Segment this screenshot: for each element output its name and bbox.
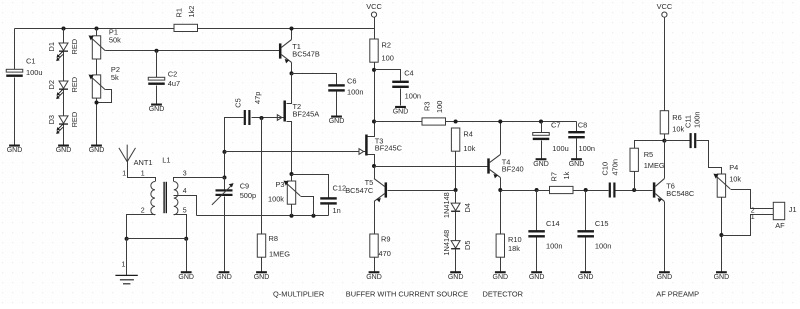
- svg-text:GND: GND: [657, 274, 673, 281]
- svg-text:1: 1: [141, 171, 145, 178]
- wire P3 wiper: [301, 197, 314, 216]
- junction C14 top: [535, 188, 539, 192]
- wire L1 pin3 to tank: [174, 178, 225, 182]
- wire VCC to R6: [664, 18, 666, 111]
- junction D1 chain top: [62, 27, 66, 31]
- svg-text:GND: GND: [448, 274, 464, 281]
- wire AVC bus: [197, 215, 329, 217]
- svg-text:R2: R2: [382, 41, 391, 50]
- svg-text:470: 470: [379, 249, 391, 258]
- svg-text:100u: 100u: [552, 144, 568, 153]
- svg-text:GND: GND: [529, 274, 545, 281]
- wire T6 collector: [664, 141, 666, 179]
- wire L1 pin2: [127, 215, 156, 239]
- wire C5 left to tank node: [225, 118, 244, 153]
- wire D3 to GND: [63, 125, 65, 145]
- ground below L1 pin5: [178, 271, 194, 281]
- resistor R10: [496, 234, 504, 257]
- svg-text:1MEG: 1MEG: [644, 161, 665, 170]
- ground below C9: [216, 271, 232, 281]
- wire R4 bottom: [455, 152, 457, 191]
- svg-text:GND: GND: [7, 147, 23, 154]
- capacitor C14: [528, 230, 545, 237]
- junction C15 top: [584, 188, 588, 192]
- ground below R9: [366, 271, 382, 281]
- wire D1 to D2: [63, 52, 65, 82]
- svg-text:3: 3: [183, 171, 187, 178]
- LED D1: [56, 43, 68, 61]
- svg-text:C5: C5: [233, 98, 242, 107]
- wire C15 down: [585, 191, 587, 231]
- resistor R3: [422, 118, 446, 125]
- wire C7 top: [541, 122, 543, 133]
- junction T1 emitter / C6: [290, 71, 294, 75]
- wire P1 to P2: [96, 60, 98, 75]
- svg-text:BUFFER WITH CURRENT SOURCE: BUFFER WITH CURRENT SOURCE: [346, 289, 468, 298]
- capacitor C10: [609, 183, 616, 198]
- svg-text:1: 1: [751, 214, 755, 221]
- wire D2 to D3: [63, 90, 65, 116]
- transistor T1: [279, 40, 292, 64]
- wire P2 bottom: [96, 99, 98, 145]
- wire bus to P1: [96, 29, 98, 36]
- svg-text:GND: GND: [254, 274, 270, 281]
- wire T2 source to P3: [291, 175, 293, 182]
- junction R2 bottom / C4: [372, 68, 376, 72]
- junction P4 bottom / J1 pin1: [719, 233, 723, 237]
- wire C11 to P4 top: [697, 141, 722, 175]
- wire T3 drain: [368, 122, 375, 137]
- wire T1 collector to bus: [291, 29, 293, 40]
- junction T4 emitter / R10 / det line: [498, 188, 502, 192]
- junction P1 chain top: [95, 27, 99, 31]
- wire R5 bottom: [634, 172, 636, 191]
- wire T5 base: [388, 190, 456, 192]
- svg-text:C11: C11: [683, 115, 692, 128]
- capacitor C4: [392, 81, 409, 88]
- svg-text:100n: 100n: [347, 87, 363, 96]
- wire top supply bus left: [15, 28, 175, 30]
- svg-text:BC547C: BC547C: [345, 186, 374, 195]
- svg-text:RED: RED: [70, 112, 79, 128]
- svg-text:1: 1: [122, 171, 126, 178]
- resistor R4: [451, 128, 459, 151]
- wire C14 to R7: [537, 190, 550, 192]
- wire C1 to GND: [14, 78, 16, 145]
- wire C6 branch: [292, 74, 337, 85]
- svg-text:GND: GND: [493, 274, 509, 281]
- wire C8 to GND: [576, 139, 578, 159]
- supply symbol VCC left: [371, 12, 376, 17]
- svg-text:C10: C10: [601, 162, 610, 176]
- svg-text:R4: R4: [463, 130, 472, 139]
- svg-text:10k: 10k: [463, 144, 475, 153]
- svg-text:10k: 10k: [729, 175, 741, 184]
- wire C9 to GND: [224, 197, 226, 272]
- wire T2 source: [287, 122, 292, 175]
- wire to earth ground: [126, 239, 128, 276]
- svg-text:C1: C1: [26, 57, 35, 66]
- svg-text:R7: R7: [550, 172, 559, 181]
- junction T2 source / P3 / C12: [290, 172, 294, 176]
- LED D3: [56, 116, 68, 134]
- wire C14 to GND: [536, 238, 538, 272]
- wire top supply bus right (R1 to VCC): [198, 28, 375, 30]
- svg-text:C8: C8: [578, 120, 587, 129]
- earth ground symbol: [115, 275, 137, 283]
- wire C4 branch: [375, 70, 401, 81]
- svg-text:1k2: 1k2: [187, 6, 196, 18]
- svg-text:C12: C12: [333, 184, 347, 193]
- svg-text:1N4148: 1N4148: [442, 192, 451, 218]
- ground below C8: [569, 158, 585, 168]
- wire VCC to bus corner: [374, 18, 376, 40]
- wire bus to D1: [63, 29, 65, 44]
- resistor R9: [370, 234, 378, 257]
- junction T4 collector: [498, 120, 502, 124]
- capacitor C1: [6, 69, 23, 77]
- wire C9 top: [224, 178, 226, 190]
- junction C9 top / L1 pin3: [223, 176, 227, 180]
- wire C2 to GND: [156, 86, 158, 104]
- svg-text:D3: D3: [47, 115, 56, 124]
- wire T2 gate to C5: [252, 117, 284, 119]
- wire R7 to C15: [574, 190, 609, 192]
- svg-text:100n: 100n: [692, 112, 701, 128]
- wire C8 top: [576, 122, 578, 132]
- svg-text:C2: C2: [168, 69, 177, 78]
- potentiometer P2: [89, 75, 106, 99]
- wire C1 top: [14, 29, 16, 70]
- svg-text:AF PREAMP: AF PREAMP: [656, 289, 699, 298]
- resistor R5: [630, 148, 638, 171]
- svg-text:R9: R9: [381, 234, 390, 243]
- ground below C4: [393, 106, 409, 116]
- diode D4: [451, 203, 460, 212]
- diode D5: [451, 241, 460, 250]
- svg-text:D5: D5: [463, 241, 472, 250]
- ground below C7: [533, 158, 549, 168]
- junction C7 top: [539, 120, 543, 124]
- wire pin2-pin5 link: [127, 238, 187, 240]
- wire T4 emitter: [500, 178, 502, 235]
- wire P4 wiper to J1 pin2: [731, 190, 774, 209]
- ground below C15: [578, 271, 594, 281]
- wire T4 collector: [500, 122, 502, 155]
- junction L1 pin5 / ground: [184, 237, 188, 241]
- junction R5 bottom / T6 base: [632, 188, 636, 192]
- svg-text:L1: L1: [162, 155, 170, 164]
- svg-text:100n: 100n: [405, 92, 421, 101]
- transistor T2: [277, 101, 286, 122]
- transistor T4: [487, 155, 500, 179]
- capacitor C2: [148, 77, 165, 85]
- wire C4 to GND: [400, 89, 402, 106]
- ground below R8: [254, 271, 270, 281]
- connector J1: [773, 202, 784, 219]
- wire tank node down to C9: [224, 153, 226, 178]
- wire antenna to L1 pin1: [128, 162, 156, 182]
- capacitor C6: [328, 84, 345, 91]
- svg-text:ANT1: ANT1: [134, 158, 153, 167]
- svg-text:1MEG: 1MEG: [269, 249, 290, 258]
- ground below C14: [529, 271, 545, 281]
- svg-text:100n: 100n: [579, 144, 595, 153]
- svg-text:100n: 100n: [546, 242, 562, 251]
- svg-text:100: 100: [435, 101, 444, 113]
- svg-text:100: 100: [382, 54, 394, 63]
- wire node to C11: [665, 140, 690, 142]
- svg-text:1: 1: [121, 262, 125, 269]
- wire C12 bottom: [328, 205, 330, 216]
- svg-text:GND: GND: [366, 274, 382, 281]
- junction R3 / R4: [454, 120, 458, 124]
- wire P1 wiper to T1 base: [106, 50, 280, 52]
- ground below P2: [89, 145, 105, 155]
- svg-text:C14: C14: [546, 219, 560, 228]
- svg-text:100n: 100n: [595, 242, 611, 251]
- wire D4 to D5: [455, 212, 457, 241]
- svg-text:VCC: VCC: [657, 2, 673, 11]
- transistor T3: [359, 135, 368, 156]
- ground below C1: [7, 145, 23, 155]
- junction T1 collector on bus: [290, 27, 294, 31]
- resistor R1: [174, 24, 198, 31]
- svg-text:R8: R8: [269, 234, 278, 243]
- junction P3 bottom on bus: [290, 214, 294, 218]
- potentiometer P3: [284, 181, 301, 205]
- svg-text:18k: 18k: [508, 244, 520, 253]
- svg-text:C15: C15: [595, 219, 609, 228]
- svg-text:GND: GND: [569, 161, 585, 168]
- svg-text:1n: 1n: [333, 206, 341, 215]
- junction R6 / R5 / C11 / T6 collector: [662, 139, 666, 143]
- svg-text:Q-MULTIPLIER: Q-MULTIPLIER: [273, 289, 324, 298]
- junction R8 on gate wire: [260, 116, 264, 120]
- wire T6 emitter to GND: [664, 202, 666, 272]
- svg-text:AF: AF: [775, 221, 785, 230]
- svg-text:GND: GND: [329, 118, 345, 125]
- svg-text:47p: 47p: [253, 92, 262, 104]
- svg-text:R5: R5: [644, 150, 653, 159]
- svg-text:GND: GND: [216, 274, 232, 281]
- wire P3 bottom: [291, 205, 293, 216]
- svg-text:5k: 5k: [111, 73, 119, 82]
- capacitor C9 (variable): [212, 183, 234, 205]
- junction L1 pin2 / earth: [125, 237, 129, 241]
- svg-text:D4: D4: [463, 203, 472, 212]
- svg-text:RED: RED: [70, 39, 79, 55]
- wire T3 gate arrowstub: [363, 151, 366, 153]
- transistor T5: [374, 179, 387, 203]
- svg-text:C7: C7: [551, 120, 560, 129]
- wire pin5 gnd: [186, 239, 188, 272]
- wire C6 to GND: [336, 92, 338, 116]
- resistor R8: [257, 234, 265, 257]
- wire R6 bottom: [664, 134, 666, 141]
- svg-text:RED: RED: [70, 77, 79, 93]
- svg-text:C6: C6: [347, 77, 356, 86]
- wire R9 to GND: [374, 258, 376, 272]
- ground below P4: [714, 271, 730, 281]
- wire T5 emitter to R9: [374, 202, 376, 235]
- svg-text:C4: C4: [404, 69, 413, 78]
- junction tank node C5/C9/T3 gate: [223, 150, 227, 154]
- svg-text:C9: C9: [240, 182, 249, 191]
- resistor R2: [370, 39, 378, 62]
- svg-text:GND: GND: [533, 161, 549, 168]
- antenna ANT1: [119, 145, 136, 162]
- capacitor C5: [244, 110, 251, 125]
- svg-text:BF245A: BF245A: [293, 109, 320, 118]
- ground below D3: [56, 145, 72, 155]
- svg-text:GND: GND: [714, 274, 730, 281]
- wire T3 source: [368, 155, 375, 167]
- wire tank node to T3 gate: [225, 151, 366, 153]
- svg-text:BC547B: BC547B: [292, 50, 320, 59]
- svg-text:BF240: BF240: [502, 165, 524, 174]
- svg-text:R1: R1: [174, 8, 183, 17]
- svg-text:5: 5: [183, 208, 187, 215]
- wire R5 top to collector node: [635, 141, 665, 149]
- junction T3 source / T4 base / T5 collector: [372, 164, 376, 168]
- ground below R10: [493, 271, 509, 281]
- svg-text:50k: 50k: [109, 35, 121, 44]
- wire D5 to GND: [455, 250, 457, 272]
- svg-text:GND: GND: [89, 147, 105, 154]
- capacitor C11: [690, 133, 697, 148]
- svg-text:GND: GND: [178, 274, 194, 281]
- wire P2 wiper return: [97, 90, 112, 103]
- wire T2 drain: [287, 74, 292, 104]
- junction R4 / D4 / detector line: [454, 188, 458, 192]
- wire T1 emitter down: [291, 63, 293, 104]
- svg-text:D1: D1: [47, 42, 56, 51]
- LED D2: [56, 81, 68, 99]
- wire L1 pin5: [174, 215, 187, 239]
- wire T3 drain to R3: [375, 121, 423, 123]
- capacitor C15: [577, 230, 594, 237]
- wire D4 top: [455, 191, 457, 204]
- inductor L1 transformer: [151, 182, 178, 215]
- wire R8 to GND: [261, 258, 263, 272]
- svg-text:100k: 100k: [268, 195, 284, 204]
- svg-text:GND: GND: [393, 109, 409, 116]
- svg-text:470n: 470n: [611, 159, 620, 175]
- svg-text:P3: P3: [275, 180, 284, 189]
- junction P2 bottom: [95, 101, 99, 105]
- junction C2 top: [155, 49, 159, 53]
- svg-text:4: 4: [183, 188, 187, 195]
- junction T3 drain / R3: [372, 120, 376, 124]
- svg-text:2: 2: [141, 208, 145, 215]
- svg-text:500p: 500p: [240, 191, 256, 200]
- ground below D5: [448, 271, 464, 281]
- svg-text:GND: GND: [149, 106, 165, 113]
- potentiometer P1: [89, 35, 106, 59]
- ground below T6: [657, 271, 673, 281]
- resistor R6: [660, 111, 668, 134]
- svg-text:100u: 100u: [26, 68, 42, 77]
- wire C12 branch: [292, 175, 329, 198]
- svg-text:4u7: 4u7: [168, 79, 180, 88]
- svg-text:BF245C: BF245C: [375, 144, 403, 153]
- wire C10 to T6 base: [616, 190, 653, 192]
- wire R2 bottom to T3 drain: [374, 63, 376, 122]
- svg-text:VCC: VCC: [366, 2, 382, 11]
- svg-text:GND: GND: [578, 274, 594, 281]
- wire T5 collector: [374, 167, 376, 179]
- transistor T6: [653, 179, 665, 203]
- wire P4 bottom to GND: [721, 198, 723, 272]
- wire C14 down: [536, 191, 538, 231]
- svg-text:1k: 1k: [562, 171, 571, 179]
- wire C2 top: [156, 51, 158, 78]
- capacitor C7: [533, 133, 550, 141]
- resistor R7: [550, 186, 574, 193]
- capacitor C8: [568, 131, 585, 138]
- potentiometer P4: [713, 174, 730, 198]
- ground below C2: [149, 104, 165, 114]
- svg-text:GND: GND: [56, 147, 72, 154]
- svg-text:R10: R10: [508, 235, 522, 244]
- wire C7 to GND: [541, 141, 543, 159]
- svg-text:R3: R3: [423, 102, 432, 111]
- wire R10 to GND: [500, 258, 502, 272]
- svg-text:D2: D2: [47, 80, 56, 89]
- junction P3 wiper on bus: [312, 214, 316, 218]
- svg-text:J1: J1: [789, 205, 797, 214]
- wire T3 source to T4 base: [375, 166, 488, 168]
- svg-text:BC548C: BC548C: [666, 189, 695, 198]
- ground below C6: [329, 116, 345, 126]
- wire R8 from gate node: [261, 118, 263, 235]
- svg-text:1N4148: 1N4148: [442, 230, 451, 256]
- wire R3 to C8 bus: [446, 121, 577, 123]
- wire L1 pin4 to AVC bus: [174, 196, 197, 216]
- wire J1 pin1: [722, 215, 774, 236]
- supply symbol VCC right: [662, 12, 667, 17]
- wire C15 to GND: [585, 238, 587, 272]
- svg-text:R6: R6: [672, 113, 681, 122]
- svg-text:P4: P4: [729, 163, 738, 172]
- svg-text:DETECTOR: DETECTOR: [483, 289, 524, 298]
- capacitor C12: [320, 197, 337, 204]
- wire det line to C14: [501, 190, 537, 192]
